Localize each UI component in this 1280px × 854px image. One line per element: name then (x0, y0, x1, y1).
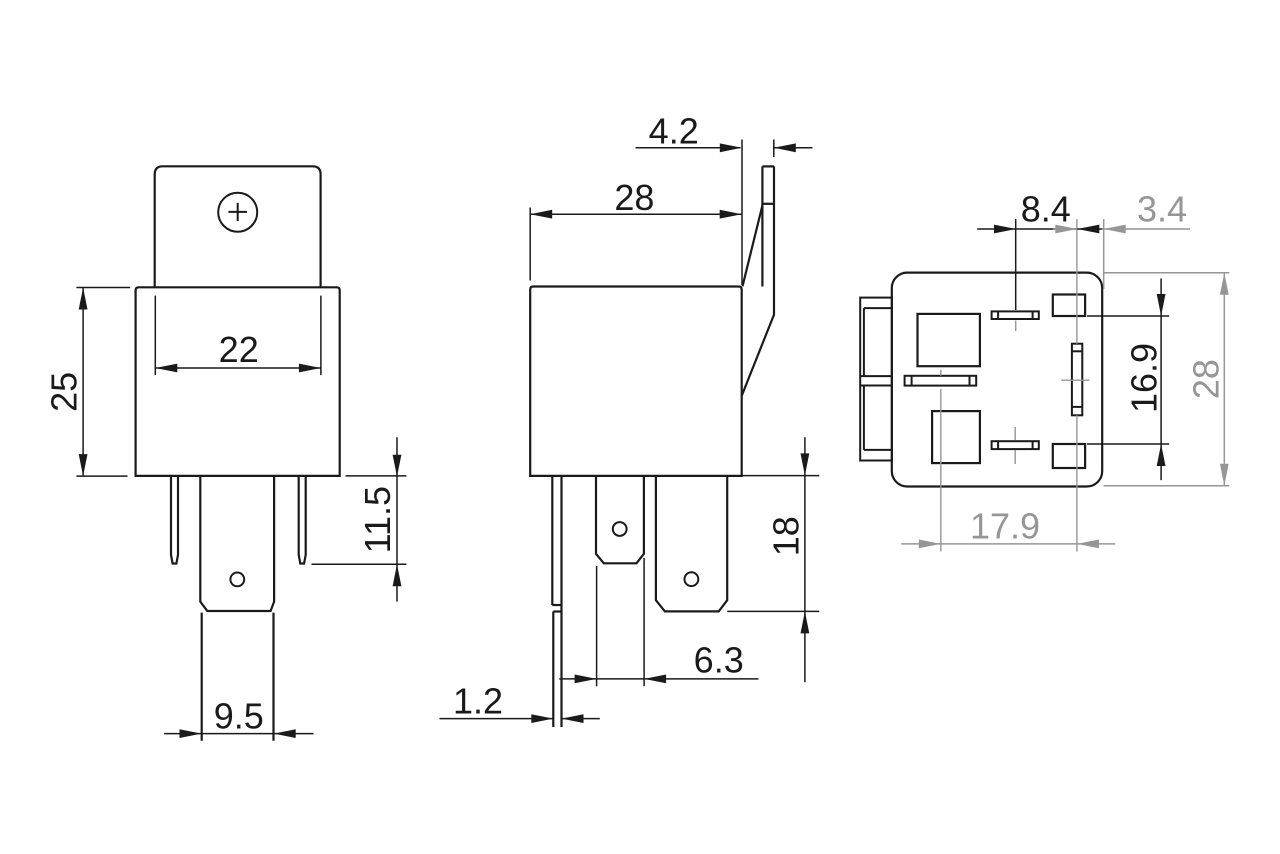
svg-text:18: 18 (765, 516, 806, 556)
svg-text:1.2: 1.2 (453, 680, 503, 721)
svg-text:28: 28 (614, 177, 654, 218)
svg-text:6.3: 6.3 (694, 640, 744, 681)
svg-text:4.2: 4.2 (649, 111, 699, 152)
svg-text:16.9: 16.9 (1124, 343, 1165, 413)
svg-text:9.5: 9.5 (214, 696, 264, 737)
svg-text:8.4: 8.4 (1021, 189, 1071, 230)
svg-text:17.9: 17.9 (970, 505, 1040, 546)
svg-text:25: 25 (43, 372, 84, 412)
svg-text:11.5: 11.5 (357, 486, 398, 553)
svg-text:28: 28 (1185, 359, 1226, 399)
svg-text:3.4: 3.4 (1137, 189, 1187, 230)
svg-text:22: 22 (219, 329, 259, 370)
